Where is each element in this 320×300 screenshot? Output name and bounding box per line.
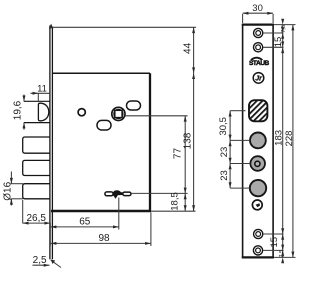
key right lobe: [123, 192, 131, 196]
deadbolt bar C: [23, 184, 50, 199]
svg-text:183: 183: [273, 130, 284, 146]
screw hole 4: [253, 246, 262, 255]
right extension lines: [263, 32, 284, 34]
svg-text:30: 30: [252, 3, 263, 14]
dim Ø16: [11, 183, 24, 185]
lock case bottom edge: [51, 210, 151, 212]
svg-text:15: 15: [269, 237, 280, 248]
screw hole 2: [254, 43, 263, 52]
dim line 44 / 138: [193, 27, 195, 211]
latch nose (beveled bolt): [38, 103, 48, 121]
screw hole 3: [254, 229, 263, 238]
faceplate outline: [243, 25, 274, 258]
svg-text:15: 15: [273, 37, 284, 48]
leader at faceplate tip: [51, 260, 61, 267]
brand logo: [250, 57, 263, 61]
key extension line: [131, 192, 188, 194]
svg-text:23: 23: [219, 170, 230, 181]
screw hole 1: [254, 28, 263, 37]
bolt circle 2: [250, 180, 266, 196]
follower square spindle hole: [115, 110, 122, 117]
faceplate side view rear line: [51, 27, 53, 259]
follower hub inner: [114, 109, 123, 118]
deadbolt bar B: [23, 160, 50, 175]
case screw hole: [78, 109, 85, 116]
svg-text:30,5: 30,5: [218, 117, 229, 136]
dim 228: [292, 25, 294, 258]
svg-text:Ø16: Ø16: [3, 181, 14, 200]
double-bit key profile: [113, 190, 124, 198]
key left lobe: [105, 192, 113, 196]
svg-text:228: 228: [284, 131, 295, 147]
latch bolt (hatched): [249, 100, 267, 121]
faceplate top arrowhead: [49, 24, 53, 29]
svg-text:44: 44: [182, 42, 193, 54]
dim 26,5: [22, 200, 24, 223]
svg-text:98: 98: [98, 233, 110, 244]
left chain extension lines: [230, 110, 245, 112]
faceplate extension below: [49, 223, 51, 246]
lock case top edge: [52, 72, 150, 74]
dim 98: [50, 242, 151, 244]
left chain dimension line 30,5 / 23 / 23: [229, 111, 231, 188]
latch bevel extension line: [37, 93, 39, 102]
lock case right edge: [149, 73, 151, 211]
top extension line: [52, 26, 196, 28]
svg-text:23: 23: [219, 147, 230, 158]
right chain dimension line 7,5 / 15 / 183 / 15 / 7,5: [282, 25, 284, 258]
security screw: [252, 200, 262, 210]
svg-text:7,5: 7,5: [279, 250, 285, 258]
svg-text:18,5: 18,5: [169, 192, 180, 211]
svg-text:STAUB: STAUB: [249, 60, 269, 67]
svg-text:65: 65: [79, 216, 91, 227]
bolt circle 1: [250, 133, 266, 149]
svg-text:7,5: 7,5: [281, 25, 287, 33]
oblong slot A: [127, 101, 141, 110]
faceplate side view front line: [49, 26, 51, 260]
latch top line: [24, 100, 50, 102]
latch bottom line: [24, 122, 50, 124]
monogram circle: [253, 73, 264, 84]
svg-text:138: 138: [182, 132, 193, 149]
oblong slot B: [97, 120, 111, 130]
follower hub outer: [112, 107, 125, 120]
dim 65: [50, 226, 119, 228]
case right extension for 98: [150, 213, 152, 247]
cylinder hole: [250, 156, 265, 171]
deadbolt bar A: [23, 137, 50, 153]
key vertical extension for 65: [118, 198, 120, 230]
bottom extension line: [151, 210, 196, 212]
dim 19,6: [23, 95, 25, 102]
svg-text:26,5: 26,5: [26, 213, 46, 224]
svg-text:19,6: 19,6: [13, 100, 24, 120]
dim line 77 / 18,5: [184, 116, 186, 211]
follower extension line: [125, 115, 188, 117]
